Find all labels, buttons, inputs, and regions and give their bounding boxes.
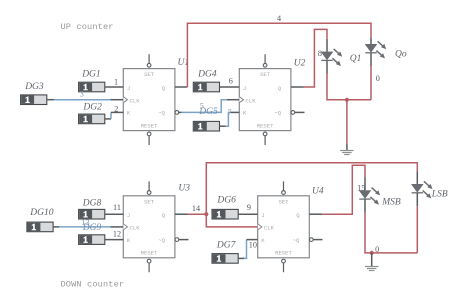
svg-text:DG3: DG3 xyxy=(24,82,44,92)
svg-text:8: 8 xyxy=(318,49,322,58)
svg-text:SET: SET xyxy=(144,198,155,205)
svg-text:J: J xyxy=(127,85,130,92)
LED MSB xyxy=(359,188,380,205)
svg-text:Q1: Q1 xyxy=(350,54,362,64)
svg-text:RESET: RESET xyxy=(275,250,292,257)
svg-text:DG2: DG2 xyxy=(82,102,102,112)
svg-text:MSB: MSB xyxy=(381,198,401,208)
wire net 10 DG7 to U4 K xyxy=(244,240,246,259)
svg-text:DG6: DG6 xyxy=(216,195,236,205)
svg-text:RESET: RESET xyxy=(257,122,274,129)
svg-text:SET: SET xyxy=(278,198,289,205)
wire DG7 stub xyxy=(238,257,244,259)
svg-text:1: 1 xyxy=(114,78,118,87)
wire DG6 to U4 pin J xyxy=(238,213,258,215)
digital constant DG6 xyxy=(212,209,238,219)
wire LED LSB cathode stub xyxy=(416,193,418,206)
svg-text:4: 4 xyxy=(277,14,281,23)
svg-text:DG5: DG5 xyxy=(198,107,218,117)
wire DG1 to U1 pin J xyxy=(105,86,124,88)
digital constant DG3 xyxy=(21,95,47,105)
LED LSB xyxy=(412,181,433,198)
svg-text:RESET: RESET xyxy=(141,250,158,257)
wire U2 CLK stub xyxy=(227,99,239,101)
wire U4 Q to LED MSB xyxy=(322,165,365,214)
svg-text:J: J xyxy=(127,212,130,219)
wire DG8 to U3 pin J xyxy=(105,213,124,215)
wire junction to ground xyxy=(346,100,348,144)
svg-text:2: 2 xyxy=(114,105,118,114)
svg-text:~Q: ~Q xyxy=(158,110,165,117)
svg-text:DG10: DG10 xyxy=(29,208,53,218)
svg-text:~Q: ~Q xyxy=(158,237,165,244)
junction lower ground node xyxy=(370,251,374,255)
LED Q0 xyxy=(365,41,386,58)
svg-text:DG8: DG8 xyxy=(82,199,102,209)
svg-text:CLK: CLK xyxy=(264,225,275,232)
svg-text:RESET: RESET xyxy=(141,122,158,129)
wire net 14 to U4 CLK xyxy=(206,214,257,227)
wire LED MSB to ground bus xyxy=(365,213,417,253)
wire U2 pin K stub xyxy=(231,111,240,113)
wire U3 Q pin stub xyxy=(175,213,188,215)
svg-text:J: J xyxy=(261,212,264,219)
digital constant DG5 xyxy=(193,121,219,131)
svg-text:SET: SET xyxy=(144,71,155,78)
svg-text:9: 9 xyxy=(247,203,251,212)
svg-text:0: 0 xyxy=(375,245,379,254)
wire DG5 stub xyxy=(220,125,226,127)
wire U4 ~Q open stub xyxy=(313,239,322,241)
svg-text:DOWN counter: DOWN counter xyxy=(61,280,125,290)
wire net 5 U1 ~Q to U2 CLK xyxy=(182,100,228,113)
svg-text:U4: U4 xyxy=(312,187,324,197)
LED Q1 xyxy=(321,49,342,66)
svg-text:3: 3 xyxy=(80,89,84,98)
svg-text:~Q: ~Q xyxy=(293,237,300,244)
digital constant DG2 xyxy=(79,114,105,124)
svg-text:CLK: CLK xyxy=(130,97,141,104)
svg-text:7: 7 xyxy=(228,108,232,117)
wire DG9 to U3 pin K xyxy=(105,239,124,241)
junction upper ground node xyxy=(345,98,349,102)
wire U1 pin K stub xyxy=(111,111,123,113)
svg-text:DG7: DG7 xyxy=(216,241,237,251)
wire ground stem upper xyxy=(346,144,348,151)
digital constant DG4 xyxy=(193,82,219,92)
svg-text:J: J xyxy=(243,85,246,92)
wire LED Q1 anode stub xyxy=(326,39,328,52)
wire U3 ~Q open stub xyxy=(179,239,189,241)
flip-flop U3 xyxy=(123,181,178,272)
wire LED MSB anode stub xyxy=(364,177,366,191)
svg-text:11: 11 xyxy=(113,203,121,212)
digital constant DG9 xyxy=(79,235,105,245)
svg-text:14: 14 xyxy=(192,204,200,213)
wire LED Q0 anode stub xyxy=(370,38,372,45)
digital constant DG1 xyxy=(79,82,105,92)
wire U1 Q pin stub xyxy=(175,86,188,88)
wire net 3 DG3 to U1 CLK xyxy=(54,99,111,101)
wire DG10 stub xyxy=(53,226,59,228)
wire U3 CLK stub xyxy=(111,226,124,228)
svg-text:0: 0 xyxy=(376,74,380,83)
wire U2 ~Q open stub xyxy=(295,111,305,113)
svg-text:DG4: DG4 xyxy=(197,70,217,80)
junction net 14 xyxy=(204,212,208,216)
wire LED MSB cathode stub xyxy=(364,199,366,212)
wire ground stem lower xyxy=(371,253,373,266)
wire U1 CLK stub xyxy=(111,99,124,101)
svg-text:U2: U2 xyxy=(294,59,306,69)
wire net 7 DG5 to U2 K xyxy=(226,112,231,126)
wire LED LSB to ground bus xyxy=(416,206,418,253)
digital constant DG7 xyxy=(212,254,238,264)
wire DG3 stub xyxy=(47,99,54,101)
svg-text:U3: U3 xyxy=(178,184,190,194)
wire net 14 to LED LSB xyxy=(206,163,417,214)
wire net 13 DG10 to U3 CLK xyxy=(59,226,111,228)
ground lower xyxy=(365,267,379,271)
wire U2 Q pin stub xyxy=(291,86,304,88)
svg-text:10: 10 xyxy=(249,240,257,249)
svg-text:CLK: CLK xyxy=(130,225,141,232)
wire LED Q0 cathode stub xyxy=(370,53,372,66)
wire U4 Q pin stub xyxy=(309,213,322,215)
wire U2 Q to LED Q1 xyxy=(304,29,327,87)
wire LED Q1 to ground bus xyxy=(327,74,371,100)
wire U4 pin K stub xyxy=(247,239,258,241)
wire DG2 stub xyxy=(105,118,111,120)
wire DG4 to U2 pin J xyxy=(220,86,240,88)
wire LED LSB anode stub xyxy=(416,172,418,185)
svg-text:12: 12 xyxy=(113,229,121,238)
wire U1 ~Q stub xyxy=(178,111,181,113)
svg-text:6: 6 xyxy=(229,77,233,86)
svg-text:SET: SET xyxy=(260,71,271,78)
wire LED Q1 cathode stub xyxy=(326,61,328,74)
svg-text:DG1: DG1 xyxy=(81,70,100,80)
digital constant DG10 xyxy=(27,222,53,232)
svg-text:CLK: CLK xyxy=(246,97,257,104)
svg-text:DG9: DG9 xyxy=(82,223,102,233)
svg-text:Qo: Qo xyxy=(395,50,407,60)
wire net 2 riser xyxy=(110,112,112,119)
wire net 14 U3 Q to junction xyxy=(188,213,206,215)
svg-text:UP counter: UP counter xyxy=(61,22,114,32)
flip-flop U2 xyxy=(239,54,294,145)
wire net 0 LED Q0 to junction xyxy=(370,66,372,100)
ground upper xyxy=(340,151,354,155)
svg-text:~Q: ~Q xyxy=(274,110,281,117)
digital constant DG8 xyxy=(79,209,105,219)
flip-flop U1 xyxy=(123,54,178,145)
svg-text:LSB: LSB xyxy=(431,190,448,200)
wire net 4 U1 Q to LED Q0 xyxy=(187,23,371,87)
flip-flop U4 xyxy=(258,181,313,272)
